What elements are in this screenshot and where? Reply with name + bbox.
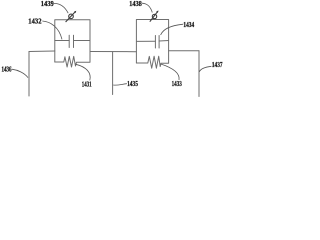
wire: left port vertical 1436 bbox=[28, 52, 30, 97]
resistor R 1431 on box1 bottom edge bbox=[55, 56, 90, 67]
svg-text:1436: 1436 bbox=[2, 66, 12, 74]
wire: middle port vertical 1435 bbox=[112, 52, 114, 95]
capacitor C 1432 branch bbox=[55, 40, 90, 42]
leader line for 1432 bbox=[42, 21, 62, 39]
capacitor C 1434 branch bbox=[136, 40, 168, 43]
wire: left feed horizontal bbox=[29, 50, 55, 53]
wire: middle horizontal between tanks bbox=[90, 51, 136, 53]
leader line for 1434 bbox=[161, 24, 184, 35]
variable element symbol 1438 (circle) bbox=[152, 14, 156, 18]
variable element 1439 arrow bbox=[66, 11, 76, 22]
wire: right horizontal bbox=[169, 50, 199, 52]
resistor R 1433 on box2 bottom edge bbox=[136, 56, 168, 68]
svg-text:1433: 1433 bbox=[172, 80, 182, 88]
svg-text:1438: 1438 bbox=[129, 0, 142, 8]
wire: right port vertical 1437 bbox=[198, 51, 200, 97]
variable element 1438 arrow bbox=[150, 11, 158, 22]
leader line for 1435 bbox=[113, 84, 127, 86]
leader line for 1438 bbox=[142, 3, 152, 12]
tank box 2 left/top/right edges bbox=[136, 20, 168, 64]
leader line for 1439 bbox=[54, 3, 68, 13]
leader line for 1436 bbox=[12, 69, 28, 77]
leader line for 1433 bbox=[161, 64, 179, 80]
svg-text:1432: 1432 bbox=[28, 18, 42, 26]
leader line for 1431 bbox=[76, 64, 90, 80]
svg-text:1431: 1431 bbox=[82, 81, 92, 89]
svg-text:1435: 1435 bbox=[127, 80, 138, 88]
variable element symbol 1439 (circle) bbox=[69, 14, 74, 19]
svg-text:1439: 1439 bbox=[41, 0, 54, 8]
leader line for 1437 bbox=[199, 66, 211, 72]
svg-text:1437: 1437 bbox=[212, 61, 223, 69]
tank box 1 left/top/right edges bbox=[55, 20, 90, 62]
svg-text:1434: 1434 bbox=[183, 21, 194, 29]
